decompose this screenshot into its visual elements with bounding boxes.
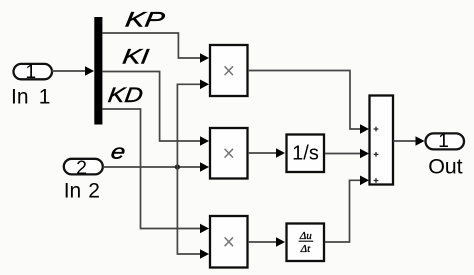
junction e node xyxy=(175,164,180,169)
label KD xyxy=(107,84,145,107)
svg-text:1: 1 xyxy=(438,130,449,152)
mux bar xyxy=(94,17,102,125)
svg-text:1: 1 xyxy=(25,61,36,83)
svg-text:KD: KD xyxy=(107,84,145,107)
product block D xyxy=(210,216,248,268)
svg-text:In: In xyxy=(64,180,82,203)
label e xyxy=(110,140,127,163)
svg-text:2: 2 xyxy=(76,157,87,179)
label KI xyxy=(121,46,150,69)
wire integrator to sum xyxy=(325,149,369,159)
svg-text:1: 1 xyxy=(39,85,51,108)
wire e to product I xyxy=(103,162,209,172)
svg-text:In: In xyxy=(11,85,29,108)
wire In1 to Mux xyxy=(52,66,95,76)
wire product D to derivative xyxy=(249,237,285,247)
product block I xyxy=(210,128,248,179)
integrator block 1/s xyxy=(287,135,325,173)
wire KI to product I xyxy=(102,72,209,146)
inport In 1 xyxy=(14,61,53,83)
wire sum to Out xyxy=(393,136,424,146)
wire e down to product D xyxy=(177,167,209,259)
wire product I to integrator xyxy=(249,148,285,158)
derivative block du/dt xyxy=(287,224,325,262)
svg-text:KP: KP xyxy=(124,8,166,31)
product block P xyxy=(210,45,248,96)
svg-text:KI: KI xyxy=(121,46,150,69)
wire KD to product D xyxy=(102,109,209,233)
wire product P to sum xyxy=(249,71,369,134)
label KP xyxy=(124,8,166,31)
wire KP to product P xyxy=(102,33,209,63)
wire e up to product P xyxy=(177,80,209,168)
sum block xyxy=(370,96,394,185)
svg-text:1/s: 1/s xyxy=(292,143,319,165)
outport Out xyxy=(426,130,465,152)
svg-text:Δu: Δu xyxy=(299,230,312,242)
svg-text:Out: Out xyxy=(428,154,462,178)
svg-text:2: 2 xyxy=(88,180,100,203)
svg-text:Δt: Δt xyxy=(300,243,311,255)
wire derivative to sum xyxy=(325,176,369,243)
inport In 2 xyxy=(64,157,103,179)
